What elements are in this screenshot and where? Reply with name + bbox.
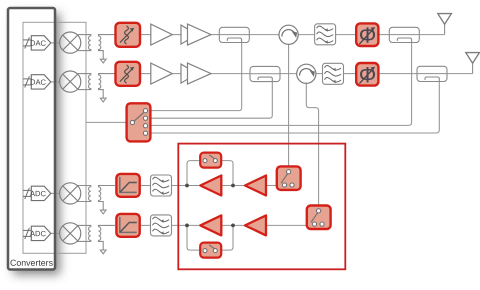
circulator CR1 bbox=[279, 25, 298, 44]
amplifier A2 bbox=[151, 63, 173, 84]
wire PA2 to coupler CP3 bbox=[211, 73, 250, 75]
phase shifter PS2 bbox=[356, 62, 378, 87]
antenna ANT1 bbox=[438, 14, 452, 35]
svg-text:DAC: DAC bbox=[30, 78, 47, 87]
filter FA bbox=[151, 175, 172, 196]
wire filter FA to LNA A bbox=[172, 185, 201, 187]
wire DAC1 to mixer M1 bbox=[51, 42, 60, 44]
wire coupler CP4 to antenna ANT2 bbox=[447, 73, 473, 75]
balun T2 with ground bbox=[77, 74, 116, 102]
bus slash ADC A bbox=[23, 188, 31, 199]
wire amp RB2 to switch SW3 bbox=[266, 224, 314, 226]
coupler CP4 bbox=[417, 66, 447, 81]
balun TB with ground bbox=[77, 225, 116, 253]
switch SW2 SP2T bbox=[277, 166, 301, 190]
wire LNA A to amp RA2 bbox=[221, 185, 244, 187]
junction node B1 bbox=[185, 224, 189, 228]
DAC2 bbox=[31, 75, 51, 89]
svg-text:ADC: ADC bbox=[30, 189, 47, 198]
balun TA with ground bbox=[77, 186, 116, 214]
inner converters/mixers subsystem box bbox=[23, 22, 86, 253]
wire phase shifter PS2 to coupler CP4 bbox=[378, 73, 417, 75]
coupler CP1 bbox=[219, 27, 249, 42]
wire circulator CR2 port3 to switch SW3 bbox=[306, 83, 318, 208]
coupler CP3 bbox=[250, 66, 280, 81]
wire circulator CR1 port3 to switch SW2 bbox=[288, 44, 290, 169]
LNA bank red boundary bbox=[178, 144, 345, 270]
wire LNA B to amp RB2 bbox=[221, 224, 244, 226]
phase shifter PS1 bbox=[356, 23, 378, 48]
wire bypass B right bbox=[215, 225, 233, 250]
LNA A bbox=[200, 176, 221, 196]
svg-text:DAC: DAC bbox=[30, 39, 47, 48]
ADC B bbox=[31, 226, 51, 240]
switch SW1 SP4T bbox=[127, 103, 151, 141]
filter F2 bbox=[323, 63, 344, 84]
Converters subsystem frame bbox=[8, 8, 55, 270]
mixer RB bbox=[60, 223, 81, 244]
balun T1 with ground bbox=[77, 35, 116, 63]
amplifier A1 bbox=[151, 24, 173, 45]
wire circulator CR2 to filter F2 bbox=[316, 73, 323, 75]
bypass switch BPB bbox=[200, 243, 221, 258]
bus slash DAC1 bbox=[23, 37, 31, 48]
wire coupler CP3 to circulator CR2 bbox=[280, 73, 297, 75]
junction node B2 bbox=[231, 224, 235, 228]
wire mixer RB to ADC B bbox=[51, 232, 60, 234]
wire coupler CP1 to circulator CR1 bbox=[249, 34, 279, 36]
wire switch SW1 out2 to coupler CP3 tap bbox=[148, 82, 273, 119]
mixer M1 bbox=[60, 32, 81, 53]
attenuator AT2 bbox=[116, 62, 141, 86]
mixer M2 bbox=[60, 71, 81, 92]
wire coupler CP2 to antenna ANT1 bbox=[419, 34, 444, 36]
wire AGC A to filter FA bbox=[140, 185, 151, 187]
wire mixer RA to ADC A bbox=[51, 192, 60, 194]
antenna ANT2 bbox=[466, 53, 480, 74]
switch SW3 SP2T bbox=[307, 206, 331, 230]
DAC1 bbox=[31, 36, 51, 50]
LNA B bbox=[200, 215, 221, 235]
amplifier RA2 bbox=[245, 176, 266, 196]
bypass switch BPA bbox=[200, 153, 221, 168]
AGC amplifier GB bbox=[116, 214, 139, 237]
power amplifier PA2 bbox=[181, 63, 211, 84]
attenuator AT1 bbox=[116, 23, 141, 47]
wire filter FB to LNA B bbox=[172, 224, 201, 226]
bus slash DAC2 bbox=[23, 76, 31, 87]
wire PA1 to coupler CP1 bbox=[211, 34, 219, 36]
wire attenuator1 to amp1 bbox=[140, 34, 151, 36]
junction node A2 bbox=[231, 184, 235, 188]
wire amp3 to PA2 bbox=[172, 73, 181, 75]
filter F1 bbox=[315, 24, 336, 45]
wire amp1 to PA1 bbox=[172, 34, 181, 36]
wire switch SW1 out3 to coupler CP2 tap bbox=[148, 43, 412, 126]
circulator CR2 bbox=[297, 64, 316, 83]
bus slash ADC B bbox=[23, 228, 31, 239]
wire AGC B to filter FB bbox=[140, 224, 151, 226]
wire bypass A left bbox=[187, 161, 205, 186]
filter FB bbox=[151, 215, 172, 236]
wire switch SW1 out4 to coupler CP4 tap bbox=[148, 82, 440, 134]
ADC A bbox=[31, 186, 51, 200]
wire DAC2 to mixer M2 bbox=[51, 81, 60, 83]
svg-text:Converters: Converters bbox=[10, 258, 54, 268]
wire amp RA2 to switch SW2 bbox=[266, 185, 285, 187]
coupler CP2 bbox=[389, 27, 419, 42]
power amplifier PA1 bbox=[181, 24, 211, 45]
amplifier RB2 bbox=[245, 215, 266, 235]
mixer RA bbox=[60, 183, 81, 204]
wire attenuator2 to amp3 bbox=[140, 73, 151, 75]
wire filter F2 to phase shifter PS2 bbox=[344, 73, 357, 75]
Converters subsystem shadow bbox=[8, 8, 55, 270]
wire circulator CR1 to filter F1 bbox=[298, 34, 315, 36]
wire subsystem to switch SW1 pole bbox=[86, 121, 130, 123]
wire bypass B left bbox=[187, 225, 205, 250]
AGC amplifier GA bbox=[116, 174, 139, 197]
svg-text:ADC: ADC bbox=[30, 229, 47, 238]
wire phase shifter PS1 to coupler CP2 bbox=[378, 34, 389, 36]
junction node A1 bbox=[185, 184, 189, 188]
wire filter F1 to phase shifter PS1 bbox=[336, 34, 357, 36]
wire switch SW1 out1 to coupler CP1 tap bbox=[148, 43, 242, 111]
wire bypass A right bbox=[215, 161, 233, 186]
